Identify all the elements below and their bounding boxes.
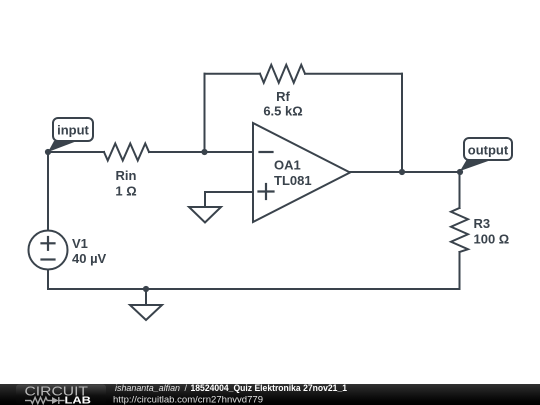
wire: Rin to op-amp inverting input	[149, 151, 253, 153]
svg-text:TL081: TL081	[274, 173, 312, 188]
wire: input node down to V1 top	[47, 152, 49, 231]
junction: inverting input / feedback node	[201, 149, 207, 155]
voltage source V1	[29, 231, 68, 270]
resistor Rf	[260, 65, 305, 83]
footer logo badge background	[16, 385, 106, 405]
svg-text:Rin: Rin	[116, 168, 137, 183]
wire: Rf to top-right corner	[305, 73, 402, 75]
value TL081	[274, 173, 312, 188]
junction: ground on bottom bus	[143, 286, 149, 292]
value 1 Ω	[115, 184, 136, 199]
wire: R3 to bottom bus	[459, 252, 461, 289]
resistor R3	[451, 208, 468, 252]
wire: op-amp output to output node	[350, 171, 460, 173]
footer url line 2	[113, 394, 263, 404]
svg-text:R3: R3	[474, 216, 491, 231]
label Rin	[116, 168, 137, 183]
CircuitLab logo schematic squiggle (resistor + diode)	[25, 397, 65, 404]
CircuitLab logo wordmark LAB	[65, 396, 92, 405]
junction: feedback to output	[399, 169, 405, 175]
op-amp plus pin symbol	[259, 184, 274, 199]
svg-text:output: output	[468, 143, 509, 158]
svg-text:18524004_Quiz Elektronika 27no: 18524004_Quiz Elektronika 27nov21_1	[191, 383, 348, 393]
wire: feedback right riser	[401, 74, 403, 172]
svg-text:input: input	[57, 123, 89, 138]
label Rf	[276, 89, 290, 104]
svg-text:100 Ω: 100 Ω	[474, 232, 510, 247]
svg-text:Rf: Rf	[276, 89, 290, 104]
ground at bottom bus	[130, 305, 162, 320]
svg-text:LAB: LAB	[65, 396, 92, 405]
svg-text:6.5 kΩ: 6.5 kΩ	[263, 104, 302, 119]
wire: feedback left riser	[204, 74, 206, 152]
wire: bottom ground bus	[48, 288, 460, 290]
wire: stub from bottom bus to ground	[145, 289, 147, 305]
node flag: output	[460, 138, 512, 171]
label V1	[72, 236, 88, 251]
value 100 Ω	[474, 232, 510, 247]
resistor Rin	[104, 144, 149, 161]
svg-text:1 Ω: 1 Ω	[115, 184, 136, 199]
svg-text:OA1: OA1	[274, 158, 301, 173]
footer bar	[0, 384, 540, 405]
CircuitLab logo wordmark CIRCUIT	[25, 385, 89, 399]
wire: output node down to R3	[459, 172, 461, 208]
svg-text:ishananta_alfian: ishananta_alfian	[115, 383, 180, 393]
svg-text:V1: V1	[72, 236, 88, 251]
junction: output node	[457, 169, 463, 175]
wire: non-inverting input	[205, 192, 253, 207]
wire: top-left to Rf	[205, 73, 261, 75]
op-amp minus pin symbol	[260, 151, 273, 153]
op-amp OA1	[253, 123, 350, 222]
wire: V1 bottom to bottom-left corner	[47, 270, 49, 290]
footer attribution line 1	[115, 383, 347, 393]
junction: input node	[45, 149, 51, 155]
label OA1	[274, 158, 301, 173]
wire: input node to Rin	[48, 151, 104, 153]
ground at op-amp non-inverting input	[189, 207, 221, 223]
node flag: input	[48, 118, 93, 152]
label R3	[474, 216, 491, 231]
value 6.5 kΩ	[263, 104, 302, 119]
svg-text:http://circuitlab.com/crn27hnv: http://circuitlab.com/crn27hnvvd779	[113, 394, 263, 404]
svg-text:40 µV: 40 µV	[72, 251, 107, 266]
value 40 µV	[72, 251, 107, 266]
